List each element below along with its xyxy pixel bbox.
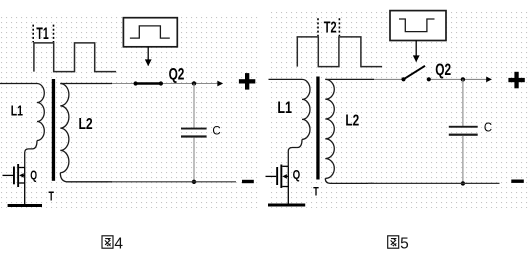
wire input to L1 top (right) — [269, 78, 303, 80]
inductor L1 (transformer primary winding) — [37, 84, 44, 141]
inductor L2 (transformer secondary winding) — [60, 84, 69, 173]
annotation box: Q2 gate pulse low (figure 5) — [390, 11, 446, 41]
waveform at node T2 (square wave) — [297, 37, 382, 67]
svg-text:T2: T2 — [324, 19, 337, 36]
wire L2 top lead to switch (right) — [325, 78, 374, 80]
caption figure 4 — [102, 236, 123, 253]
svg-text:Q: Q — [30, 168, 37, 183]
inductor L2 (transformer secondary winding, right) — [325, 79, 334, 178]
node T1 (drive input, figure 4) — [33, 25, 53, 43]
switch Q2 (open, figure 5) — [401, 61, 451, 82]
svg-text:4: 4 — [114, 236, 123, 253]
terminal + (positive output, figure 4) — [239, 73, 255, 90]
transistor Q (N-MOSFET, figure 5) — [266, 165, 301, 204]
junction node: capacitor to return rail — [192, 180, 196, 184]
transformer T core — [52, 79, 55, 181]
transformer T core (right) — [316, 77, 319, 180]
svg-text:Q2: Q2 — [435, 61, 451, 79]
waveform at node T1 (square wave) — [34, 43, 116, 72]
wire capacitor branch upper (right) — [462, 79, 464, 126]
svg-text:Q2: Q2 — [169, 66, 185, 84]
svg-text:L1: L1 — [277, 99, 292, 117]
arrow from annotation box to switch Q2 — [147, 47, 149, 66]
svg-text:C: C — [484, 119, 492, 134]
capacitor C (output filter, figure 5) — [449, 119, 492, 136]
arrow from annotation box to switch Q2 (right) — [415, 41, 417, 62]
ground (source of Q, right) — [268, 204, 305, 207]
junction node: top rail to capacitor C — [192, 81, 196, 85]
inductor L1 (transformer primary winding, right) — [302, 79, 310, 139]
wire L1 bottom to Q drain (right) — [288, 139, 302, 166]
wire L2 top lead to switch — [60, 83, 112, 85]
switch Q2 (closed) — [134, 66, 185, 86]
wire secondary top rail to + output — [103, 83, 223, 85]
terminal + (positive output, figure 5) — [508, 72, 524, 89]
svg-text:L2: L2 — [345, 113, 359, 130]
wire L2 bottom lead to return rail (right) — [325, 178, 374, 183]
wire capacitor branch upper — [193, 84, 195, 129]
svg-text:5: 5 — [400, 236, 409, 253]
wire bottom return rail (right) — [368, 182, 500, 184]
junction node: top rail to capacitor C (right) — [461, 77, 465, 81]
svg-text:C: C — [212, 125, 220, 137]
annotation box: Q2 gate pulse high (figure 4) — [123, 18, 177, 47]
capacitor C (output filter, figure 4) — [181, 125, 221, 137]
terminal - (negative output, figure 4) — [242, 180, 254, 183]
wire L1 bottom to Q drain — [25, 141, 37, 168]
svg-text:L1: L1 — [11, 103, 23, 119]
node T2 (drive input, figure 5) — [318, 18, 339, 36]
wire capacitor branch lower — [193, 138, 195, 182]
transistor Q (N-MOSFET, figure 4) — [3, 164, 38, 204]
svg-text:T1: T1 — [36, 25, 48, 43]
svg-text:T: T — [49, 188, 54, 203]
wire capacitor branch lower (right) — [462, 136, 464, 184]
ground (source of Q) — [8, 204, 42, 207]
wire bottom return rail — [108, 181, 236, 183]
svg-text:L2: L2 — [79, 116, 93, 133]
wire secondary top rail to switch (right) — [370, 78, 404, 80]
svg-text:T: T — [313, 187, 319, 199]
wire L2 bottom lead to return rail — [60, 173, 112, 182]
caption figure 5 — [388, 236, 409, 253]
svg-text:Q: Q — [293, 167, 301, 182]
junction node: capacitor to return rail (right) — [461, 181, 465, 185]
wire switch to + output (right) — [429, 78, 492, 80]
terminal - (negative output, figure 5) — [511, 180, 524, 183]
wire input to L1 top — [0, 83, 37, 85]
